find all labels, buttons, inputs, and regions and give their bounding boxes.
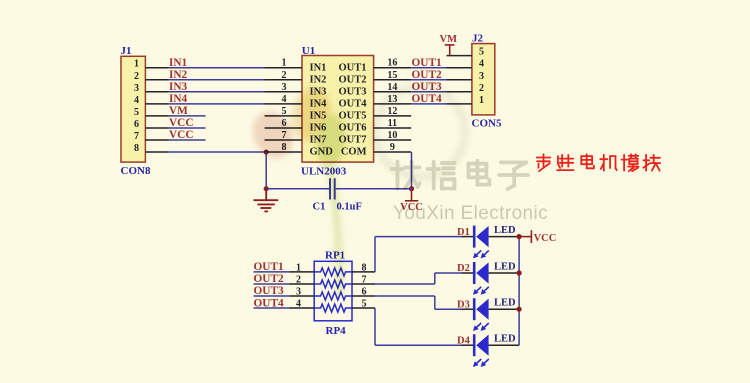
svg-text:15: 15 [387,70,397,81]
svg-text:4: 4 [134,95,139,106]
svg-text:VM: VM [440,34,458,45]
svg-text:7: 7 [362,274,367,285]
wire C1 right plate to VCC node [336,188,412,190]
resistor element RP1 r4 [315,304,352,312]
LED D2 [462,262,520,295]
junction D1/VCC [517,234,522,239]
U1 pin 11 stub [374,127,412,129]
U1 pin 7 stub [265,139,303,141]
RP1 pin 6 stub [352,295,375,297]
svg-text:COM: COM [341,147,367,158]
svg-text:OUT4: OUT4 [338,98,367,109]
wire OUT3 to RP1.3 [254,295,290,297]
power symbol VM (bar) [445,45,455,56]
svg-text:D1: D1 [457,227,470,238]
svg-text:OUT1: OUT1 [338,62,366,73]
svg-text:YouXin Electronic: YouXin Electronic [393,203,548,224]
svg-text:OUT4: OUT4 [254,297,284,309]
svg-text:5: 5 [479,47,484,58]
J1 pin 8 stub [145,151,168,153]
wire LED cathode bus [518,237,520,346]
svg-text:OUT1: OUT1 [254,261,284,273]
junction COM/VCC/C1 [409,186,414,191]
wire OUT3 U1.14 to J2.2 [411,91,446,93]
svg-text:2: 2 [479,83,484,94]
J1 pin 5 stub [145,115,168,117]
svg-text:VM: VM [169,105,188,117]
wire OUT4 to RP1.4 [254,307,290,309]
wire OUT1 to RP1.1 [254,271,290,273]
wire RP1.8 up to D1 row [374,237,376,272]
svg-text:4: 4 [282,94,287,105]
svg-text:J2: J2 [472,32,484,44]
J1 pin 7 stub [145,139,168,141]
svg-text:1: 1 [479,95,484,106]
resistor element RP1 r2 [315,280,352,288]
junction at U1 GND pin [264,149,269,154]
svg-text:IN2: IN2 [169,69,188,81]
U1 pin 10 stub [374,139,412,141]
J1 pin 4 stub [145,103,168,105]
svg-text:D2: D2 [457,263,470,274]
wire VCC from J1.7 [169,139,206,141]
U1 pin 15 stub [374,79,412,81]
svg-text:8: 8 [362,262,367,273]
svg-text:LED: LED [494,261,516,272]
LED D3 [462,298,520,331]
svg-text:7: 7 [134,131,139,142]
svg-text:12: 12 [387,106,397,117]
svg-text:OUT3: OUT3 [254,285,284,297]
svg-text:IN2: IN2 [310,74,327,85]
wire VM from J1.5 [169,115,206,117]
svg-text:IN1: IN1 [169,57,188,69]
svg-text:LED: LED [494,298,516,309]
U1 pin 12 stub [374,115,412,117]
svg-text:IN4: IN4 [169,93,188,105]
wire down to D3 row [434,296,436,309]
wire OUT4 U1.13 to J2.1 [411,103,446,105]
svg-text:OUT2: OUT2 [254,273,284,285]
capacitor C1 0.1uF [330,178,335,199]
svg-text:CON5: CON5 [472,117,502,129]
svg-text:3: 3 [134,83,139,94]
RP1 pin 4 stub [289,307,314,309]
wire to D4 anode [375,344,462,346]
junction D2 [517,270,522,275]
wire to D1 anode [375,236,462,238]
RP1 pin 3 stub [289,295,314,297]
svg-text:5: 5 [134,107,139,118]
resistor element RP1 r3 [315,292,352,300]
svg-text:16: 16 [387,58,397,69]
svg-text:VCC: VCC [169,117,193,129]
svg-text:11: 11 [388,118,397,129]
U1 pin 5 stub [265,115,303,117]
RP1 pin 2 stub [289,283,314,285]
svg-text:1: 1 [296,262,301,273]
RP1 pin 8 stub [352,271,375,273]
wire OUT1 U1.16 to J2.4 [411,67,446,69]
U1 pin 4 stub [265,103,303,105]
svg-text:LED: LED [494,334,516,345]
ground symbol (power ground) [254,189,279,212]
svg-text:6: 6 [134,119,139,130]
watermark gray ring [375,87,465,177]
U1 pin 9 stub [374,151,412,153]
svg-text:IN3: IN3 [169,81,188,93]
svg-text:3: 3 [282,82,287,93]
svg-text:5: 5 [362,298,367,309]
power symbol VCC (bar, right of D1) [519,230,531,243]
junction D3 [517,307,522,312]
J1 pin 1 stub [145,67,168,69]
svg-text:VCC: VCC [169,129,193,141]
svg-text:IN1: IN1 [310,62,327,73]
power symbol VCC (bar, below U1) [405,189,418,201]
svg-text:OUT5: OUT5 [338,111,366,122]
U1 pin 6 stub [265,127,303,129]
wire RP1.5 down to D4 row [374,308,376,345]
U1 pin 2 stub [265,79,303,81]
RP1 pin 1 stub [289,271,314,273]
RP1 pin 7 stub [352,283,375,285]
svg-text:C1: C1 [313,201,326,212]
svg-text:3: 3 [479,71,484,82]
svg-text:1: 1 [282,58,287,69]
LED D4 [462,334,520,367]
J2 pin 3 stub [447,79,472,81]
svg-text:6: 6 [362,286,367,297]
svg-text:OUT1: OUT1 [412,57,442,69]
wire VCC from J1.6 [169,127,206,129]
svg-text:8: 8 [134,143,139,154]
svg-text:4: 4 [479,59,484,70]
U1 pin 8 stub [265,151,303,153]
U1 pin 1 stub [265,67,303,69]
RP1 pin 5 stub [352,307,375,309]
svg-text:OUT2: OUT2 [338,74,366,85]
svg-text:OUT3: OUT3 [338,86,366,97]
svg-text:4: 4 [296,298,301,309]
svg-text:2: 2 [282,70,287,81]
connector J1 (CON8) body [121,56,145,162]
svg-text:D4: D4 [457,335,471,346]
svg-text:CON8: CON8 [121,165,151,177]
wire IN4 J1.4 to U1.4 [169,103,265,105]
wire IN2 J1.2 to U1.2 [169,79,265,81]
wire to D3 anode [435,308,462,310]
svg-text:10: 10 [387,130,397,141]
svg-text:ULN2003: ULN2003 [301,166,347,178]
J2 pin 5 stub [447,55,472,57]
svg-text:D3: D3 [457,299,470,310]
watermark leaf logo [246,83,348,293]
J1 pin 6 stub [145,127,168,129]
wire RP1.7 right [375,283,435,285]
U1 pin 16 stub [374,67,412,69]
op IC U1 ULN2003 body [302,56,374,163]
wire GND J1.8 to U1.8 [169,151,267,153]
svg-text:VCC: VCC [534,233,557,244]
wire OUT2 to RP1.2 [254,283,290,285]
svg-text:RP4: RP4 [326,325,347,337]
U1 pin 3 stub [265,91,303,93]
wire to D2 anode [435,272,462,274]
J2 pin 4 stub [447,67,472,69]
svg-text:9: 9 [390,142,395,153]
J1 pin 2 stub [145,79,168,81]
watermark text You Xin (Chinese) [392,161,529,190]
connector J2 (CON5) body [472,44,495,115]
junction GND/C1 [264,186,269,191]
wire IN3 J1.3 to U1.3 [169,91,265,93]
svg-text:U1: U1 [302,45,315,57]
U1 pin 14 stub [374,91,412,93]
svg-text:RP1: RP1 [325,250,345,262]
LED D1 [462,226,520,259]
svg-text:0.1uF: 0.1uF [337,201,362,212]
svg-text:1: 1 [134,59,139,70]
svg-text:2: 2 [134,71,139,82]
svg-text:3: 3 [296,286,301,297]
resistor element RP1 r1 [315,268,352,276]
svg-text:LED: LED [494,225,516,236]
wire up to D2 row [434,273,436,284]
svg-text:2: 2 [296,274,301,285]
J2 pin 1 stub [447,103,472,105]
title text: stepper motor module (CJK) [537,154,551,171]
wire U1 COM down to VCC node [411,152,413,189]
J1 pin 3 stub [145,91,168,93]
U1 pin 13 stub [374,103,412,105]
J2 pin 2 stub [447,91,472,93]
wire IN1 J1.1 to U1.1 [169,67,265,69]
wire GND node down [265,152,267,189]
wire RP1.6 right [375,295,435,297]
wire OUT2 U1.15 to J2.3 [411,79,446,81]
wire GND node to C1 left plate [266,188,329,190]
svg-text:5: 5 [282,106,287,117]
svg-text:J1: J1 [121,45,132,57]
resistor network RP1 body [314,261,352,321]
svg-text:OUT2: OUT2 [412,69,442,81]
